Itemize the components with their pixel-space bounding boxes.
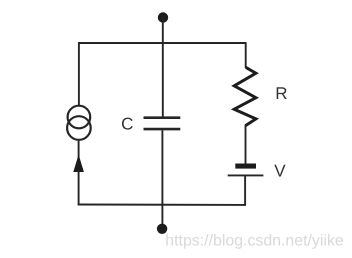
capacitor C1 plates [144, 118, 181, 129]
wire (top node stub down to top rail) [162, 18, 164, 44]
wire (top rail) [79, 42, 246, 44]
node N2 (bottom) [157, 224, 167, 234]
current direction arrow (pointing up) [73, 155, 84, 173]
current source I1 (two overlapping circles) [67, 106, 91, 140]
wire (top rail down to capacitor top plate) [162, 42, 164, 117]
svg-text:https://blog.csdn.net/yiike: https://blog.csdn.net/yiike [165, 232, 344, 249]
wire (battery negative plate down to bottom rail) [244, 175, 246, 205]
node N1 (top) [158, 12, 168, 22]
wire (current source down to bottom rail) [78, 140, 80, 206]
battery V1 positive plate (short thick bar) [235, 164, 256, 169]
svg-text:V: V [274, 161, 286, 180]
battery V1 negative plate (long thin bar) [228, 174, 264, 176]
wire (resistor down to battery positive plate) [245, 125, 247, 164]
wire (bottom rail) [78, 204, 246, 206]
svg-text:R: R [275, 84, 287, 103]
resistor R1 (zigzag) [234, 67, 256, 125]
wire (capacitor bottom plate down through bottom rail to bottom node) [161, 130, 163, 229]
wire (right branch, top rail down to resistor) [245, 42, 247, 68]
svg-text:C: C [121, 115, 133, 134]
wire (left branch, top rail down to current source) [78, 42, 80, 106]
